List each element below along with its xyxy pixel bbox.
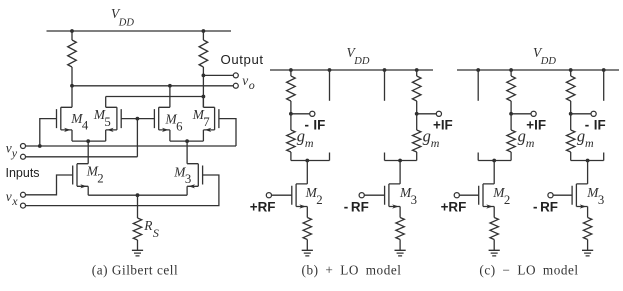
junction M3 drain (c)	[586, 159, 590, 163]
svg-text:- IF: - IF	[585, 118, 606, 133]
resistor degeneration c-right	[583, 218, 591, 240]
wire M2 drain up to quad	[87, 141, 89, 164]
transistor M7 (mirrored)	[203, 107, 219, 132]
transistor M3 (b)	[385, 184, 401, 209]
ground (a)	[132, 250, 143, 256]
wire -RF to gate (c)	[553, 194, 572, 196]
svg-text:y: y	[11, 146, 18, 160]
wire M4/M5 source line	[72, 140, 106, 142]
wire M7 gate to vy+	[219, 119, 236, 146]
wire M3 drain up to quad	[186, 141, 188, 164]
node VDD rail (b)	[270, 69, 433, 71]
junction M4/M5 sources	[86, 139, 90, 143]
svg-text:+IF: +IF	[433, 118, 453, 133]
terminal vy+	[21, 144, 26, 149]
terminal +RF (c)	[454, 193, 459, 198]
resistor degeneration b-right	[396, 218, 404, 240]
junction left out / M6 drain	[168, 84, 172, 88]
junction +IF node (c)	[509, 112, 513, 116]
wire M6/M7 source line	[170, 140, 204, 142]
svg-text:m: m	[526, 136, 535, 150]
terminal vo+	[233, 73, 238, 78]
wire M5 drain up	[105, 97, 107, 108]
junction -IF node (c)	[569, 112, 573, 116]
transconductor gm b-left	[290, 114, 292, 130]
wire M4 drain up	[71, 86, 73, 108]
wire M3 drain down (b)	[399, 161, 401, 184]
open switch stub b2 (top)	[384, 70, 386, 101]
svg-text:+RF: +RF	[250, 200, 276, 215]
svg-text:- RF: - RF	[344, 200, 369, 215]
junction rail b2	[328, 68, 332, 72]
svg-text:2: 2	[97, 171, 103, 185]
svg-text:7: 7	[203, 115, 210, 129]
junction rail c2	[509, 68, 513, 72]
junction rail b4	[415, 68, 419, 72]
junction -IF node	[289, 112, 293, 116]
svg-text:g: g	[577, 126, 585, 145]
svg-text:DD: DD	[353, 56, 370, 67]
svg-text:(a) Gilbert cell: (a) Gilbert cell	[92, 263, 178, 278]
wire M3 drain down (c)	[587, 161, 589, 184]
wire M2 drain line (c)	[478, 160, 511, 162]
wire -RF to gate (b)	[364, 194, 384, 196]
transistor M5 (mirrored)	[106, 107, 122, 132]
open switch stub c2 (bottom)	[603, 153, 605, 161]
terminal -IF (c)	[591, 111, 596, 116]
terminal vy-	[21, 154, 26, 159]
terminal vx+	[21, 192, 26, 197]
node VDD rail (a)	[47, 30, 232, 32]
node VDD rail (c)	[457, 69, 619, 71]
junction left res / M4 drain	[70, 84, 74, 88]
svg-text:+IF: +IF	[526, 118, 546, 133]
open switch stub c1 (bottom)	[477, 153, 479, 161]
transistor M2 (c)	[479, 184, 495, 209]
ground b-right	[395, 250, 406, 256]
wire M6 source down	[169, 130, 171, 141]
wire +IF stub	[417, 113, 437, 115]
svg-text:(c) − LO model: (c) − LO model	[479, 263, 578, 278]
svg-text:2: 2	[316, 193, 322, 207]
svg-text:(b) + LO model: (b) + LO model	[302, 263, 402, 278]
resistor load b-left	[290, 70, 292, 76]
wire M3 drain line (b)	[385, 160, 417, 162]
junction rail-right resistor	[202, 29, 206, 33]
wire M3 drain line (c)	[571, 160, 604, 162]
junction right res node	[202, 74, 206, 78]
svg-text:S: S	[153, 226, 159, 240]
wire left output line	[72, 85, 233, 87]
junction rail c3	[569, 68, 573, 72]
resistor degeneration c-left	[490, 218, 498, 240]
transconductor gm c-right	[570, 114, 572, 130]
wire M2 drain down (c)	[493, 161, 495, 184]
wire +IF stub (c)	[511, 113, 531, 115]
open switch stub c2 (top)	[603, 70, 605, 101]
svg-text:m: m	[431, 136, 440, 150]
wire M2 source down (b)	[306, 207, 308, 218]
junction rail c4	[602, 68, 606, 72]
terminal vo-	[233, 83, 238, 88]
resistor load c-left	[510, 70, 512, 76]
transconductor gm c-left	[510, 114, 512, 130]
transistor M4	[57, 107, 73, 132]
svg-text:5: 5	[104, 115, 110, 129]
junction gate tie	[136, 117, 140, 121]
wire M2 source down (c)	[493, 207, 495, 218]
wire -IF stub (c)	[571, 113, 591, 115]
wire M7 drain up	[202, 97, 204, 108]
resistor load b-right	[416, 70, 418, 76]
svg-text:m: m	[585, 136, 594, 150]
terminal -RF (b)	[359, 193, 364, 198]
wire M5 drain to right output	[106, 96, 204, 98]
junction rail b3	[383, 68, 387, 72]
junction rail c1	[476, 68, 480, 72]
svg-text:3: 3	[185, 172, 191, 186]
svg-text:Inputs: Inputs	[6, 166, 40, 180]
wire -IF stub	[291, 113, 310, 115]
junction tail node	[136, 193, 140, 197]
wire +RF to gate (c)	[459, 194, 478, 196]
wire right output vertical	[202, 75, 204, 107]
wire M3 source down	[186, 186, 188, 195]
junction M6/M7 sources	[185, 139, 189, 143]
svg-text:x: x	[11, 194, 18, 208]
svg-text:3: 3	[411, 193, 417, 207]
resistor load c-right	[570, 70, 572, 76]
svg-text:o: o	[249, 78, 255, 92]
ground c-right	[582, 250, 593, 256]
wire M3 source down (b)	[399, 207, 401, 218]
svg-text:R: R	[143, 218, 152, 233]
junction vy+ / M4 gate	[38, 144, 42, 148]
wire M2 source down	[87, 186, 89, 195]
wire M5 source down	[105, 130, 107, 141]
open switch stub b1 (top)	[329, 70, 331, 101]
ground c-left	[489, 250, 500, 256]
svg-text:Output: Output	[221, 52, 264, 67]
terminal +IF	[436, 111, 441, 116]
wire M2 drain line (b)	[291, 160, 330, 162]
wire vy- line	[26, 156, 138, 158]
wire vy+ line	[26, 145, 237, 147]
wire M4 source down	[71, 130, 73, 141]
transistor M3 (c)	[572, 184, 588, 209]
svg-text:4: 4	[82, 119, 89, 133]
svg-text:DD: DD	[540, 56, 557, 67]
wire M5-M6 gate tie	[121, 118, 154, 120]
wire M7 source down	[202, 130, 204, 141]
wire vx- line to M3 gate	[26, 175, 219, 206]
terminal vx-	[21, 203, 26, 208]
terminal +RF (b)	[266, 193, 271, 198]
open switch stub b2 (bottom)	[384, 153, 386, 161]
resistor degeneration b-left	[303, 218, 311, 240]
wire right output node to terminal	[203, 74, 233, 76]
junction rail-left resistor	[70, 29, 74, 33]
wire gate tie down to vy-	[136, 119, 138, 157]
wire M2/M3 source line	[88, 194, 187, 196]
junction M5-line / right output vertical	[202, 95, 206, 99]
terminal -IF	[310, 111, 315, 116]
junction rail b1	[289, 68, 293, 72]
junction M3 drain (b)	[398, 159, 402, 163]
transistor M3 (mirrored)	[187, 164, 203, 189]
svg-text:g: g	[423, 126, 431, 145]
transistor M2	[73, 164, 89, 189]
resistor right load	[202, 31, 204, 40]
wire +RF to gate (b)	[272, 194, 292, 196]
wire M3 source down (c)	[587, 207, 589, 218]
wire M2 drain down (b)	[306, 161, 308, 184]
ground b-left	[302, 250, 313, 256]
terminal +IF (c)	[531, 111, 536, 116]
svg-text:g: g	[297, 126, 305, 145]
svg-text:+RF: +RF	[441, 200, 467, 215]
wire M6 drain up	[169, 86, 171, 108]
junction +IF node	[415, 112, 419, 116]
transconductor gm b-right	[416, 114, 418, 130]
resistor left load	[71, 31, 73, 40]
open switch stub c1 (top)	[477, 70, 479, 101]
svg-text:v: v	[6, 189, 12, 204]
wire M4 gate lead	[40, 119, 57, 146]
junction M2 drain (c)	[492, 159, 496, 163]
svg-text:DD: DD	[118, 17, 135, 28]
svg-text:2: 2	[504, 193, 510, 207]
svg-text:g: g	[518, 126, 526, 145]
resistor RS	[137, 195, 139, 218]
wire vx+ to M2 gate	[26, 175, 73, 195]
svg-text:6: 6	[176, 119, 183, 133]
junction M2 drain (b)	[305, 159, 309, 163]
svg-text:v: v	[242, 73, 248, 88]
svg-text:- IF: - IF	[305, 118, 326, 133]
terminal -RF (c)	[548, 193, 553, 198]
svg-text:- RF: - RF	[533, 200, 558, 215]
svg-text:3: 3	[598, 193, 604, 207]
svg-text:m: m	[305, 136, 314, 150]
open switch stub b1 (bottom)	[329, 153, 331, 161]
transistor M2 (b)	[292, 184, 308, 209]
transistor M6	[154, 107, 170, 132]
